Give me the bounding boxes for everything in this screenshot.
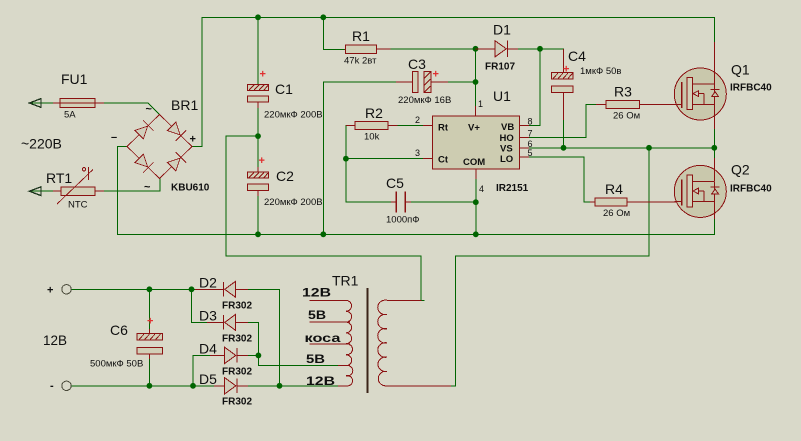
svg-text:10k: 10k [364,132,380,143]
svg-text:12В: 12В [302,286,331,300]
svg-text:R2: R2 [365,105,383,121]
svg-text:D5: D5 [199,371,217,387]
svg-text:FR302: FR302 [222,397,252,408]
wire VS node down to TR1 primary bottom [451,148,649,386]
svg-text:+: + [260,69,266,81]
svg-text:IRFBC40: IRFBC40 [730,83,772,94]
wire D3 cathode branch [192,289,208,322]
svg-text:FR302: FR302 [222,301,252,312]
capacitor C2 [248,167,269,196]
svg-text:–: – [111,132,117,144]
wire cap midpoint to TR1 primary top [226,136,424,300]
svg-text:D4: D4 [199,341,217,357]
wire D1 cathode to C4 node [518,48,564,50]
svg-text:5В: 5В [306,352,325,366]
wire BR1 minus to bottom bus [118,147,127,235]
U1 pin stubs [423,106,529,179]
svg-text:47k 2вт: 47k 2вт [344,56,377,67]
op-amp U1 IR2151 body [433,116,520,169]
node D1-C4-VB [537,46,543,52]
svg-text:12В: 12В [306,374,335,388]
wire Q1 source to VS [713,129,715,148]
wire minus output rail [71,385,214,387]
node plus-C6 [147,286,153,292]
capacitor C5 [391,192,411,213]
wire FU1 to BR1 top [104,103,160,115]
capacitor C6 [137,329,162,359]
svg-text:220мкФ 200В: 220мкФ 200В [264,110,323,121]
resistor R4 [590,198,682,206]
wire C3 right to V+ [448,81,476,83]
capacitor C1 [248,84,269,108]
node bus-COM [473,231,479,237]
capacitor C3 [396,72,448,93]
node D4-D3 tap [256,353,262,359]
svg-text:7: 7 [528,129,533,139]
TR1 core [367,288,369,393]
svg-text:5A: 5A [64,110,76,121]
wire D5 cathode to 12V tap [248,385,338,387]
Q2 source lead [713,202,715,219]
svg-text:3: 3 [415,148,420,158]
node bus-R1 [320,14,326,20]
svg-text:4: 4 [479,184,484,194]
output terminal minus [62,381,71,390]
transformer TR1 [310,288,452,393]
svg-text:1000пФ: 1000пФ [386,215,420,226]
transistor Q1 [674,68,726,120]
svg-text:+: + [433,69,439,81]
node plus-D3 [189,286,195,292]
svg-text:+: + [47,285,53,297]
wire D2 anode to D5 cathode column [248,289,280,386]
svg-text:FU1: FU1 [61,71,88,87]
svg-text:220мкФ 16В: 220мкФ 16В [398,95,451,106]
svg-text:коса: коса [305,331,341,345]
wire bottom COM bus [118,233,715,235]
thermistor RT1 [53,167,104,204]
svg-text:C3: C3 [408,56,426,72]
wire LO pin 5 to R4 [529,157,590,202]
input terminal arrow top [29,99,41,108]
svg-text:D3: D3 [199,308,217,324]
wire pin 2 to R2 [398,125,424,127]
node C3-V+ [473,79,479,85]
svg-text:HO: HO [500,133,514,144]
TR1 secondary winding [310,300,353,386]
node minus-D4 [190,383,196,389]
diode D3 [207,314,248,330]
svg-text:C5: C5 [386,175,404,191]
svg-text:+: + [563,64,569,76]
svg-text:KBU610: KBU610 [171,183,210,194]
wire Ct pin 3 [346,158,423,160]
Q2 drain lead [713,158,715,181]
wire V+ vertical pin 1 [475,49,477,116]
svg-text:VB: VB [501,122,514,133]
svg-text:1: 1 [478,99,483,109]
wire Q2 drain from VS [713,148,715,158]
node Ct junction [343,156,349,162]
svg-text:+: + [190,134,196,146]
svg-text:RT1: RT1 [46,170,72,186]
svg-text:Q2: Q2 [731,162,750,178]
svg-text:D2: D2 [199,275,217,291]
svg-text:C4: C4 [568,48,586,64]
diode D1 [476,41,519,57]
bridge rectifier BR1 [127,115,192,179]
wire C6 bottom lead [148,359,150,386]
TR1 primary winding [378,300,451,386]
Q1 drain lead [713,42,715,84]
node D5-D2 tap [277,383,283,389]
node bus-C3gnd [320,231,326,237]
resistor R3 [596,100,682,108]
svg-text:+: + [147,316,153,328]
svg-text:TR1: TR1 [332,273,359,289]
svg-text:5: 5 [528,148,533,158]
wire C2 bottom to bus [257,196,259,234]
node bus-C1 [255,14,261,20]
svg-text:V+: V+ [468,123,480,134]
wire Q1 drain from bus [713,17,715,42]
svg-text:26 Ом: 26 Ом [613,111,640,122]
svg-text:FR302: FR302 [222,334,252,345]
fuse FU1 [53,99,104,108]
svg-text:R3: R3 [614,84,632,100]
node VS-primary [646,145,652,151]
Q1 source lead [713,104,715,129]
capacitor C4 [552,49,574,120]
wire top HV+ bus [202,16,714,18]
node C4-VS [561,145,567,151]
wire bus to R1 left [323,17,344,49]
svg-text:IRFBC40: IRFBC40 [730,184,772,195]
wire VB pin 8 [529,49,540,126]
wire FU1 input [30,102,53,104]
svg-text:~: ~ [146,104,153,116]
wire HO pin 7 to R3 [529,104,596,137]
node cap midpoint [255,133,261,139]
input terminal arrow bottom [29,187,41,196]
svg-text:VS: VS [500,143,513,154]
svg-text:2: 2 [415,115,420,125]
svg-text:5В: 5В [308,308,326,322]
svg-text:C6: C6 [110,322,128,338]
wire RT1 input [30,190,53,192]
svg-text:~: ~ [144,182,151,194]
node VS-Q1Q2 [711,145,717,151]
svg-text:LO: LO [500,154,513,165]
svg-text:FR302: FR302 [222,367,252,378]
svg-text:220мкФ 200В: 220мкФ 200В [264,197,323,208]
svg-text:+: + [259,155,265,167]
transistor Q2 [674,165,726,217]
wire D4 cathode to 5V tap [248,355,338,365]
svg-text:C1: C1 [275,81,293,97]
svg-text:~220В: ~220В [21,136,62,152]
wire C1-C2 link [257,107,259,167]
wire C1 top lead from bus [257,17,259,84]
wire D3 anode down to D4 node [248,322,258,355]
wire R1 right to D1 node [391,48,476,50]
svg-text:C2: C2 [276,168,294,184]
wire C4 bottom to VS [563,120,565,148]
diode D2 [195,281,248,297]
wire COM pin 4 to bus [475,179,477,234]
wire D4 anode branch [193,355,210,385]
wire C5 right to COM [411,201,476,203]
svg-text:NTC: NTC [68,200,88,211]
output terminal plus [62,285,71,294]
resistor R1 [345,45,391,54]
node R1-D1-V+ [473,46,479,52]
svg-text:Q1: Q1 [731,62,750,78]
wire plus output rail [71,288,195,290]
svg-text:26 Ом: 26 Ом [603,208,630,219]
resistor R2 [346,122,398,130]
svg-text:12В: 12В [43,333,67,348]
svg-text:R1: R1 [352,28,370,44]
wire VS pin 6 rail [529,147,714,149]
svg-text:R4: R4 [605,181,623,197]
svg-text:COM: COM [463,157,485,168]
svg-text:BR1: BR1 [171,97,198,113]
node COM-C5 [473,199,479,205]
svg-text:-: - [50,380,54,392]
wire Q2 source to bus [713,219,715,234]
svg-text:IR2151: IR2151 [496,183,529,194]
wire C3 left to ground bus [323,82,396,234]
svg-text:8: 8 [528,117,533,127]
wire R2 left branch down [346,126,391,202]
node bus-C2 [255,231,261,237]
wire RT1 to BR1 bottom [104,179,160,192]
svg-text:500мкФ 50В: 500мкФ 50В [90,359,143,370]
diode D4 [210,347,248,363]
wire C6 top lead [148,289,150,329]
wire bus left drop to BR1+ [193,17,203,146]
svg-text:Rt: Rt [438,123,449,134]
svg-text:FR107: FR107 [485,62,515,73]
svg-text:U1: U1 [493,88,511,104]
svg-text:Ct: Ct [438,155,449,166]
svg-text:1мкФ 50в: 1мкФ 50в [580,66,621,77]
svg-text:D1: D1 [493,22,511,38]
node minus-C6 [147,383,153,389]
diode D5 [214,378,248,394]
